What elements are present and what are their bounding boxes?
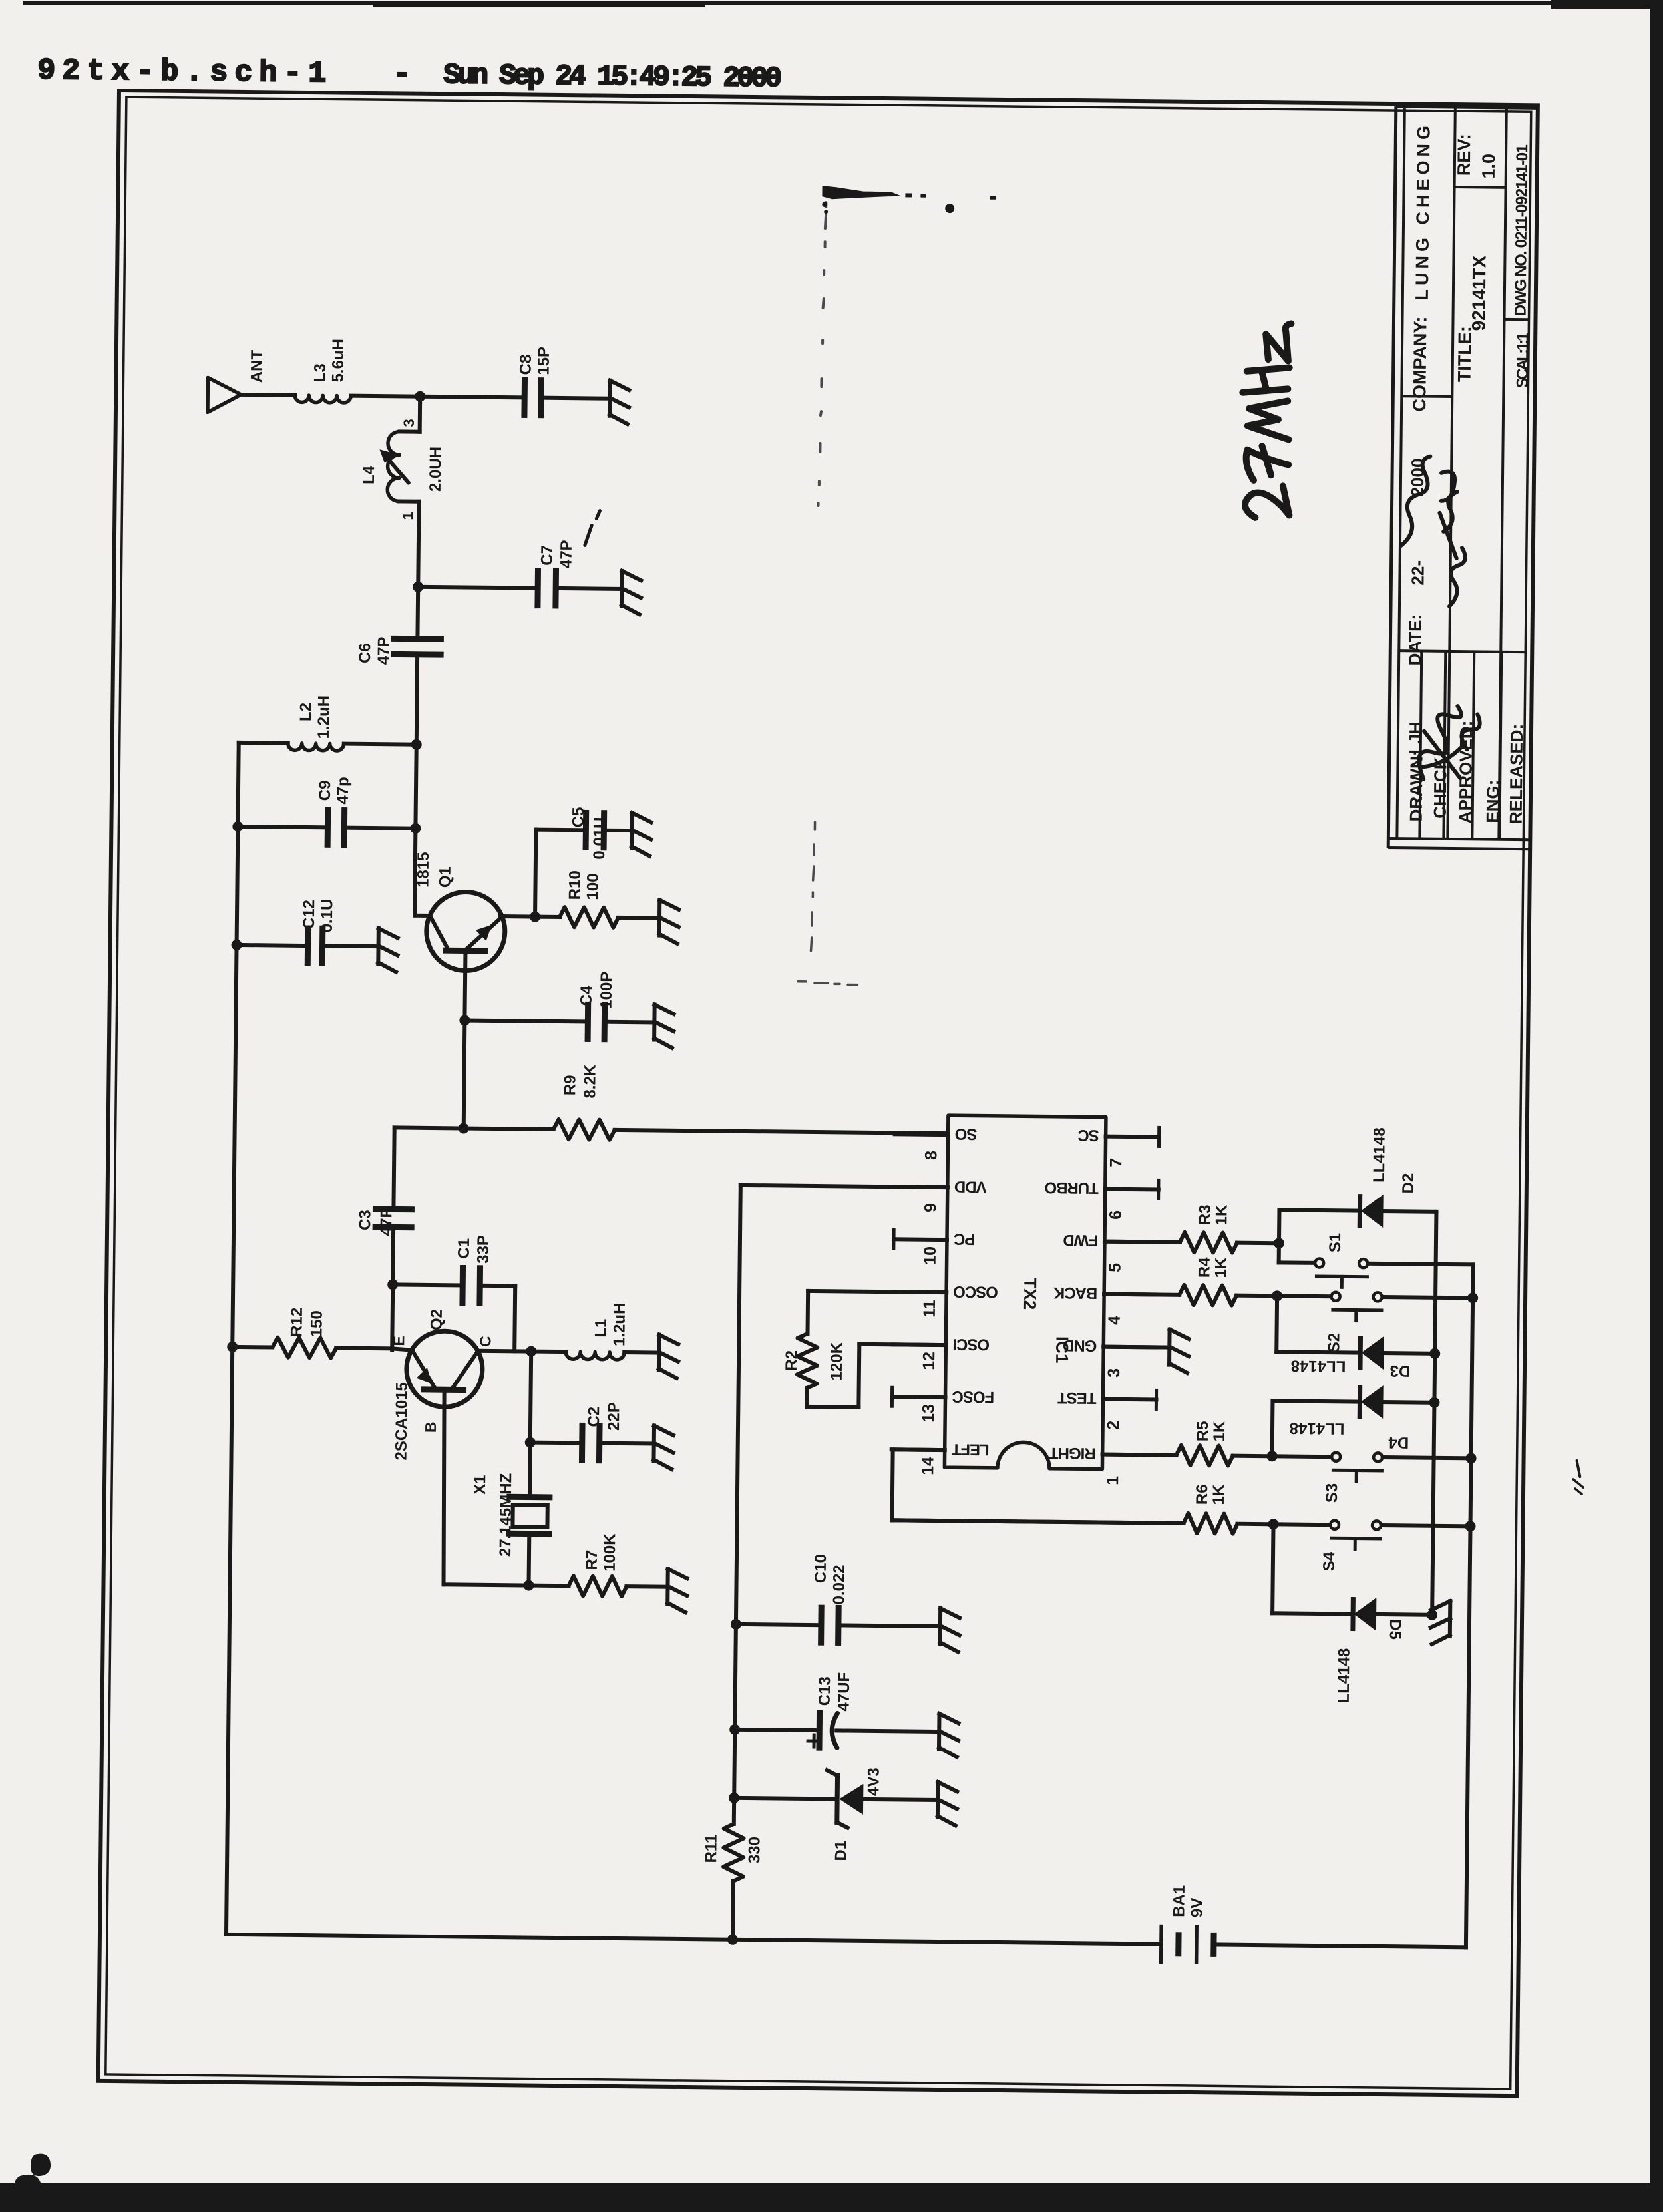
node C3/C1 (387, 1279, 398, 1290)
plot header text (37, 54, 781, 96)
wire C1 to corner (480, 1284, 515, 1288)
svg-text:C8: C8 (517, 355, 535, 375)
svg-text:TX2: TX2 (1020, 1278, 1040, 1310)
wire C4 to ground (604, 1020, 654, 1025)
node Q1 base / R9 row (459, 1123, 469, 1133)
svg-text:Q1: Q1 (436, 866, 454, 888)
wire to ground right (1432, 1613, 1435, 1617)
handwritten 27MHz note (1241, 323, 1291, 518)
IC pin 6 TURBO (1105, 1187, 1159, 1192)
resistor R9 (554, 1119, 615, 1140)
scan ink blob top (822, 186, 900, 200)
wire VDD pin9 to rail (741, 1185, 948, 1187)
svg-text:92tx-b.sch-1: 92tx-b.sch-1 (37, 54, 333, 91)
svg-text:R6: R6 (1193, 1484, 1211, 1505)
svg-text:0.022: 0.022 (830, 1565, 848, 1604)
svg-text:R10: R10 (566, 870, 584, 900)
svg-text:E: E (390, 1336, 407, 1346)
svg-text:1: 1 (399, 512, 416, 520)
node C9 left on rail (232, 821, 243, 832)
ground at C7 (620, 571, 624, 606)
wire C2 to ground (600, 1441, 654, 1446)
svg-text:3: 3 (401, 419, 417, 427)
inductor L1 (531, 1350, 566, 1354)
svg-text:C2: C2 (585, 1407, 603, 1427)
node C2 branch (525, 1437, 536, 1447)
svg-text:8: 8 (922, 1151, 940, 1160)
scanner black strip right (1650, 0, 1663, 2212)
ground at D1 (936, 1782, 940, 1817)
wire to C13 (735, 1730, 819, 1730)
svg-text:33P: 33P (474, 1235, 492, 1264)
crystal X1 (510, 1494, 550, 1501)
node R5/S3 (1267, 1451, 1278, 1461)
ground at L1 (657, 1335, 661, 1370)
wire L2 to node (344, 744, 417, 745)
svg-text:47P: 47P (558, 540, 576, 568)
diode D4 LL4148 (1272, 1401, 1360, 1401)
svg-text:C12: C12 (300, 900, 318, 929)
svg-text:OSCO: OSCO (954, 1282, 998, 1301)
svg-text:2.0UH: 2.0UH (427, 447, 445, 492)
wire C12 to ground (323, 944, 379, 948)
stray pen ticks near C7 (585, 525, 592, 545)
handwritten signature at CHECK/APPROVED (1419, 706, 1480, 780)
border frame (outer) (98, 91, 1538, 2096)
node Q2 collector (526, 1346, 536, 1357)
svg-text:C10: C10 (812, 1554, 830, 1583)
IC pin 3 GND (1103, 1345, 1157, 1350)
wire to C10 (736, 1624, 821, 1625)
IC pin 12 OSCI (892, 1342, 946, 1347)
zener diode D1 4V3 (834, 1775, 840, 1822)
svg-text:R7: R7 (583, 1550, 601, 1570)
node X1 bottom (523, 1580, 534, 1590)
wire R4 node down to D3 (1274, 1296, 1279, 1352)
svg-text:LEFT: LEFT (951, 1440, 990, 1459)
svg-text:1K: 1K (1212, 1204, 1230, 1226)
svg-text:100K: 100K (601, 1533, 620, 1572)
transistor Q1 (426, 892, 505, 971)
node D4 rail (1429, 1397, 1439, 1408)
svg-text:VDD: VDD (954, 1177, 987, 1196)
svg-text:S3: S3 (1323, 1483, 1341, 1503)
capacitor C12 (305, 928, 311, 963)
svg-text:ANT: ANT (248, 349, 266, 383)
svg-text:9: 9 (921, 1203, 940, 1212)
variable inductor L4 (418, 397, 423, 432)
ground at C13 (937, 1714, 942, 1749)
wire S1 to right rail (1369, 1264, 1473, 1265)
Q2 base lead (443, 1389, 446, 1584)
IC1 TX2 body (944, 1115, 1106, 1469)
node D3 rail (1429, 1348, 1440, 1359)
svg-text:OSCI: OSCI (953, 1335, 990, 1354)
wire C10 to ground (838, 1625, 940, 1626)
wire down to crystal X1 (528, 1443, 532, 1497)
left rail (226, 743, 239, 1935)
svg-text:BACK: BACK (1053, 1284, 1097, 1302)
wire S4 to right rail (1382, 1525, 1471, 1526)
Q1 emitter wire (500, 914, 535, 919)
node Q1 emitter (530, 912, 540, 922)
node antenna feed (415, 391, 425, 402)
wire pin14 LEFT loop (893, 1447, 945, 1452)
IC pin 14 LEFT (892, 1447, 945, 1452)
ground at C2 (651, 1426, 656, 1461)
wire R12 to Q2 emitter (336, 1346, 392, 1351)
capacitor C7 (534, 571, 541, 606)
diode D2 LL4148 (1358, 1197, 1362, 1226)
svg-text:1K: 1K (1210, 1484, 1228, 1505)
wire L2 left corner (239, 741, 288, 745)
IC pin 7 SC (1106, 1135, 1159, 1139)
svg-text:47p: 47p (334, 777, 352, 805)
svg-text:Q2: Q2 (428, 1309, 446, 1330)
wire C8 to ground (541, 398, 610, 399)
resistor R11 (723, 1824, 744, 1881)
svg-text:SCAL:1:1: SCAL:1:1 (1513, 333, 1532, 388)
handwritten Sep over date (1401, 456, 1430, 546)
Q1 base lead (464, 951, 466, 1129)
Q2 collector wire (477, 1349, 531, 1354)
transistor Q2 (406, 1331, 482, 1407)
svg-text:92141TX: 92141TX (1468, 255, 1489, 331)
svg-text:R9: R9 (561, 1075, 579, 1095)
svg-text:SO: SO (955, 1125, 977, 1143)
wire Q2 base to X1 bottom (444, 1584, 529, 1585)
svg-text:9V: 9V (1188, 1898, 1206, 1918)
resistor R3 (1105, 1242, 1180, 1242)
svg-text:2SCA1015: 2SCA1015 (392, 1382, 411, 1461)
scan fold line artifact (819, 202, 827, 506)
ground at C5 (630, 813, 634, 848)
ground at IC pin 3 (1103, 1347, 1169, 1348)
svg-text:DRAWN:: DRAWN: (1406, 750, 1427, 821)
svg-text:R12: R12 (287, 1308, 305, 1337)
diode D3 LL4148 (1358, 1338, 1363, 1368)
svg-text:27.145MHZ: 27.145MHZ (496, 1473, 515, 1557)
VDD rail (734, 1185, 741, 1824)
wire emitter node up to C5 (535, 830, 536, 917)
capacitor C3 column (393, 1127, 394, 1209)
capacitor C1 (459, 1268, 466, 1303)
wire rail to C12 (237, 945, 308, 946)
wire collector node down (530, 1352, 531, 1443)
wire R9 to IC pin 8 (615, 1130, 948, 1133)
wire C9 to node (344, 828, 415, 829)
border frame (inner) (106, 97, 1531, 2089)
capacitor C9 (325, 810, 331, 844)
svg-text:1K: 1K (1210, 1421, 1228, 1442)
resistor R6 (892, 1520, 1184, 1523)
svg-text:0.01U: 0.01U (590, 817, 609, 859)
switch S1 (1315, 1258, 1324, 1267)
svg-text:L3: L3 (311, 363, 329, 382)
svg-text:R2: R2 (783, 1350, 801, 1371)
node C9 right (410, 823, 421, 834)
wire battery to right rail (1214, 1944, 1466, 1947)
svg-text:C: C (476, 1336, 494, 1347)
handwritten Sep/25 in check column (1439, 472, 1466, 607)
resistor R5 (1103, 1455, 1177, 1455)
svg-text:RIGHT: RIGHT (1048, 1444, 1095, 1463)
ground at R7 (665, 1569, 670, 1604)
svg-text:C7: C7 (538, 545, 556, 566)
svg-text:7: 7 (1107, 1158, 1125, 1167)
svg-text:LL4148: LL4148 (1290, 1419, 1345, 1438)
ground at diode rail (1448, 1601, 1453, 1636)
wire node up to D2 (1277, 1210, 1282, 1243)
wire D3 to diode rail (1383, 1351, 1435, 1356)
capacitor C8 (521, 380, 528, 415)
svg-text:R4: R4 (1195, 1257, 1213, 1278)
svg-text:PC: PC (954, 1230, 975, 1248)
resistor R12 (232, 1345, 272, 1350)
svg-text:1815: 1815 (414, 852, 433, 888)
svg-text:4: 4 (1105, 1316, 1124, 1325)
scanner black strip bottom (0, 2183, 1663, 2212)
svg-text:DATE:: DATE: (1405, 614, 1425, 666)
svg-text:REV:: REV: (1454, 134, 1475, 176)
svg-text:R3: R3 (1196, 1204, 1214, 1225)
wire node down to S1 (1277, 1243, 1281, 1262)
resistor R7 (529, 1584, 569, 1588)
wire ANT to L3 (241, 393, 295, 397)
L4 arrow (384, 455, 409, 482)
wire C3 node down to Q2 emitter row (392, 1284, 393, 1350)
svg-text:L2: L2 (297, 703, 315, 721)
wire R6 node down to D5 (1272, 1524, 1273, 1613)
right rail (battery +) (1466, 1264, 1473, 1947)
ground at C4 (652, 1005, 657, 1040)
svg-text:LL4148: LL4148 (1370, 1127, 1389, 1183)
node C6/L2 (411, 739, 422, 750)
svg-text:100P: 100P (598, 972, 616, 1009)
svg-text:22P: 22P (605, 1402, 623, 1431)
svg-text:15P: 15P (535, 347, 553, 375)
ground at C8 (608, 381, 612, 416)
scanner black strip top (23, 1, 1663, 5)
svg-text:5: 5 (1105, 1263, 1124, 1272)
diode D5 LL4148 (1350, 1600, 1355, 1629)
svg-text:L1: L1 (592, 1319, 610, 1338)
svg-text:Sun Sep 24 15:49:25 2000: Sun Sep 24 15:49:25 2000 (443, 59, 781, 94)
node Q1 base / C4 (459, 1015, 470, 1025)
capacitor C10 (818, 1608, 825, 1642)
svg-text:8.2K: 8.2K (581, 1064, 600, 1099)
wire to C2 (530, 1441, 582, 1445)
wire down to C6 (415, 587, 420, 639)
svg-text:D5: D5 (1386, 1619, 1404, 1640)
switch S2 (1277, 1294, 1330, 1298)
wire S2 to right rail (1383, 1297, 1473, 1298)
svg-text:LL4148: LL4148 (1335, 1648, 1354, 1704)
node R11 on bus (727, 1935, 738, 1945)
svg-text:DWG NO. 0211-092141-01: DWG NO. 0211-092141-01 (1512, 144, 1532, 316)
IC pin 9 VDD (894, 1185, 948, 1189)
svg-text:10: 10 (921, 1246, 940, 1265)
IC pin 8 SO (895, 1132, 948, 1137)
node R4/S2/D3 (1272, 1290, 1282, 1301)
resistor R10 (535, 915, 560, 919)
wire R10 to ground (618, 916, 659, 920)
svg-text:3: 3 (1105, 1368, 1123, 1378)
svg-text:4V3: 4V3 (864, 1767, 882, 1796)
svg-text:BA1: BA1 (1170, 1885, 1189, 1917)
IC pin 11 OSCO (893, 1290, 946, 1294)
svg-text:150: 150 (307, 1310, 325, 1337)
svg-text:C9: C9 (316, 780, 334, 801)
ink blob bottom left (31, 2154, 51, 2176)
svg-text:D1: D1 (832, 1841, 850, 1861)
wire to C4 (464, 1021, 588, 1022)
node C13 branch (729, 1724, 740, 1735)
capacitor C6 (394, 636, 441, 642)
wire node down to C9 row (415, 745, 416, 829)
svg-text:0.1U: 0.1U (318, 898, 337, 932)
svg-text:47UF: 47UF (835, 1672, 854, 1712)
wire to D1 (734, 1798, 837, 1799)
node R3/S1/D2 (1274, 1238, 1284, 1248)
svg-text:D2: D2 (1399, 1173, 1417, 1194)
svg-text:COMPANY:: COMPANY: (1409, 316, 1430, 411)
switch S4 (1274, 1522, 1330, 1527)
wire R7 to ground (627, 1584, 668, 1589)
svg-text:22-: 22- (1407, 560, 1427, 586)
svg-text:TITLE:: TITLE: (1455, 326, 1475, 382)
svg-text:R11: R11 (702, 1835, 720, 1863)
node C10 branch (731, 1619, 741, 1630)
svg-text:X1: X1 (471, 1475, 489, 1495)
svg-text:330: 330 (745, 1837, 763, 1863)
svg-text:C6: C6 (356, 643, 374, 663)
ground at C12 (376, 928, 381, 964)
svg-text:RELEASED:: RELEASED: (1506, 724, 1527, 825)
capacitor C13 electrolytic (816, 1713, 823, 1748)
svg-text:2: 2 (1104, 1421, 1123, 1430)
wire D2 to diode rail (1382, 1209, 1436, 1214)
title block (1388, 106, 1396, 848)
node S2 rail (1467, 1292, 1478, 1303)
antenna ANT (208, 377, 242, 413)
wire R9 row (395, 1127, 554, 1129)
svg-text:120K: 120K (828, 1342, 846, 1380)
wire rail to C9 (238, 827, 327, 827)
svg-text:-: - (393, 57, 411, 91)
svg-text:6: 6 (1106, 1210, 1125, 1220)
svg-text:GND: GND (1063, 1336, 1097, 1355)
IC pin 10 PC (894, 1237, 947, 1242)
svg-text:C1: C1 (455, 1238, 473, 1259)
svg-text:B: B (422, 1421, 439, 1433)
svg-text:5.6uH: 5.6uH (329, 339, 347, 383)
wire C1 row (393, 1284, 462, 1285)
battery BA1 9V (1159, 1927, 1163, 1962)
wire S3 to right rail (1384, 1457, 1471, 1458)
wire node to C7 (418, 587, 538, 588)
node S3 rail (1466, 1453, 1477, 1463)
svg-text:47P: 47P (375, 636, 393, 665)
svg-text:S1: S1 (1326, 1233, 1344, 1253)
wire D5 to rail node (1376, 1612, 1432, 1617)
node D5 / diode rail ground (1427, 1610, 1437, 1620)
svg-text:1.2uH: 1.2uH (315, 695, 333, 739)
svg-text:TEST: TEST (1057, 1389, 1097, 1407)
node L4 bottom (413, 582, 423, 592)
capacitor C5 (583, 813, 590, 847)
node D1 branch (729, 1793, 739, 1803)
IC pin 1 RIGHT (1103, 1453, 1156, 1457)
bottom supply bus (226, 1935, 1161, 1944)
resistor R4 (1104, 1294, 1179, 1295)
inductor L2 (288, 743, 344, 751)
IC pin 5 FWD (1105, 1240, 1158, 1244)
resistor R2 loop OSCO-OSCI (808, 1291, 946, 1292)
wire feed to Q1 collector (415, 829, 415, 916)
switch S3 (1272, 1454, 1331, 1459)
svg-text:C4: C4 (578, 985, 596, 1006)
svg-text:100: 100 (584, 873, 602, 900)
IC pin 2 TEST (1103, 1397, 1156, 1402)
svg-text:TURBO: TURBO (1045, 1179, 1099, 1197)
node S4 rail (1465, 1521, 1475, 1531)
svg-text:D3: D3 (1389, 1362, 1410, 1380)
svg-text:C13: C13 (816, 1676, 834, 1706)
wire C5 to ground (604, 829, 632, 832)
node R12 on rail (227, 1342, 238, 1352)
svg-text:C5: C5 (569, 807, 587, 827)
svg-text:1.0: 1.0 (1479, 154, 1499, 179)
svg-text:L4: L4 (360, 465, 378, 484)
wire C6 to L2 node (417, 655, 417, 745)
capacitor C2 (579, 1425, 586, 1460)
capacitor C4 (585, 1004, 592, 1039)
svg-text:C3: C3 (356, 1210, 374, 1230)
svg-text:APPROVED:: APPROVED: (1455, 721, 1477, 824)
svg-text:SC: SC (1077, 1126, 1099, 1144)
svg-text:R5: R5 (1194, 1421, 1212, 1441)
IC pin 4 BACK (1104, 1292, 1157, 1297)
svg-text:D4: D4 (1388, 1433, 1409, 1451)
wire D4 to diode rail (1382, 1400, 1434, 1405)
svg-text:13: 13 (919, 1404, 938, 1423)
plus sign C13 (808, 1739, 820, 1742)
IC pin 13 FOSC (892, 1395, 946, 1399)
stray marks right margin (1576, 1461, 1580, 1477)
diode rail (1432, 1212, 1436, 1615)
svg-text:14: 14 (918, 1457, 937, 1475)
node C12 on rail (231, 940, 242, 950)
svg-text:S4: S4 (1320, 1551, 1338, 1571)
wire L3 to C8 (351, 396, 524, 398)
wire C7 to ground (556, 588, 622, 589)
svg-text:12: 12 (920, 1352, 938, 1370)
ground at R10 (657, 900, 662, 936)
inductor L3 (295, 395, 351, 403)
ground at C10 (938, 1608, 943, 1644)
svg-text:1.2uH: 1.2uH (610, 1302, 629, 1346)
svg-text:LL4148: LL4148 (1291, 1357, 1346, 1376)
svg-text:LUNG CHEONG: LUNG CHEONG (1412, 122, 1434, 301)
svg-text:FOSC: FOSC (952, 1387, 995, 1406)
svg-text:1: 1 (1103, 1476, 1122, 1485)
svg-text:S2: S2 (1325, 1333, 1343, 1353)
svg-text:FWD: FWD (1063, 1231, 1099, 1250)
node R6/S4/D5 (1268, 1519, 1278, 1529)
svg-text:LJH: LJH (1405, 721, 1426, 754)
svg-text:ENG:: ENG: (1483, 780, 1503, 823)
